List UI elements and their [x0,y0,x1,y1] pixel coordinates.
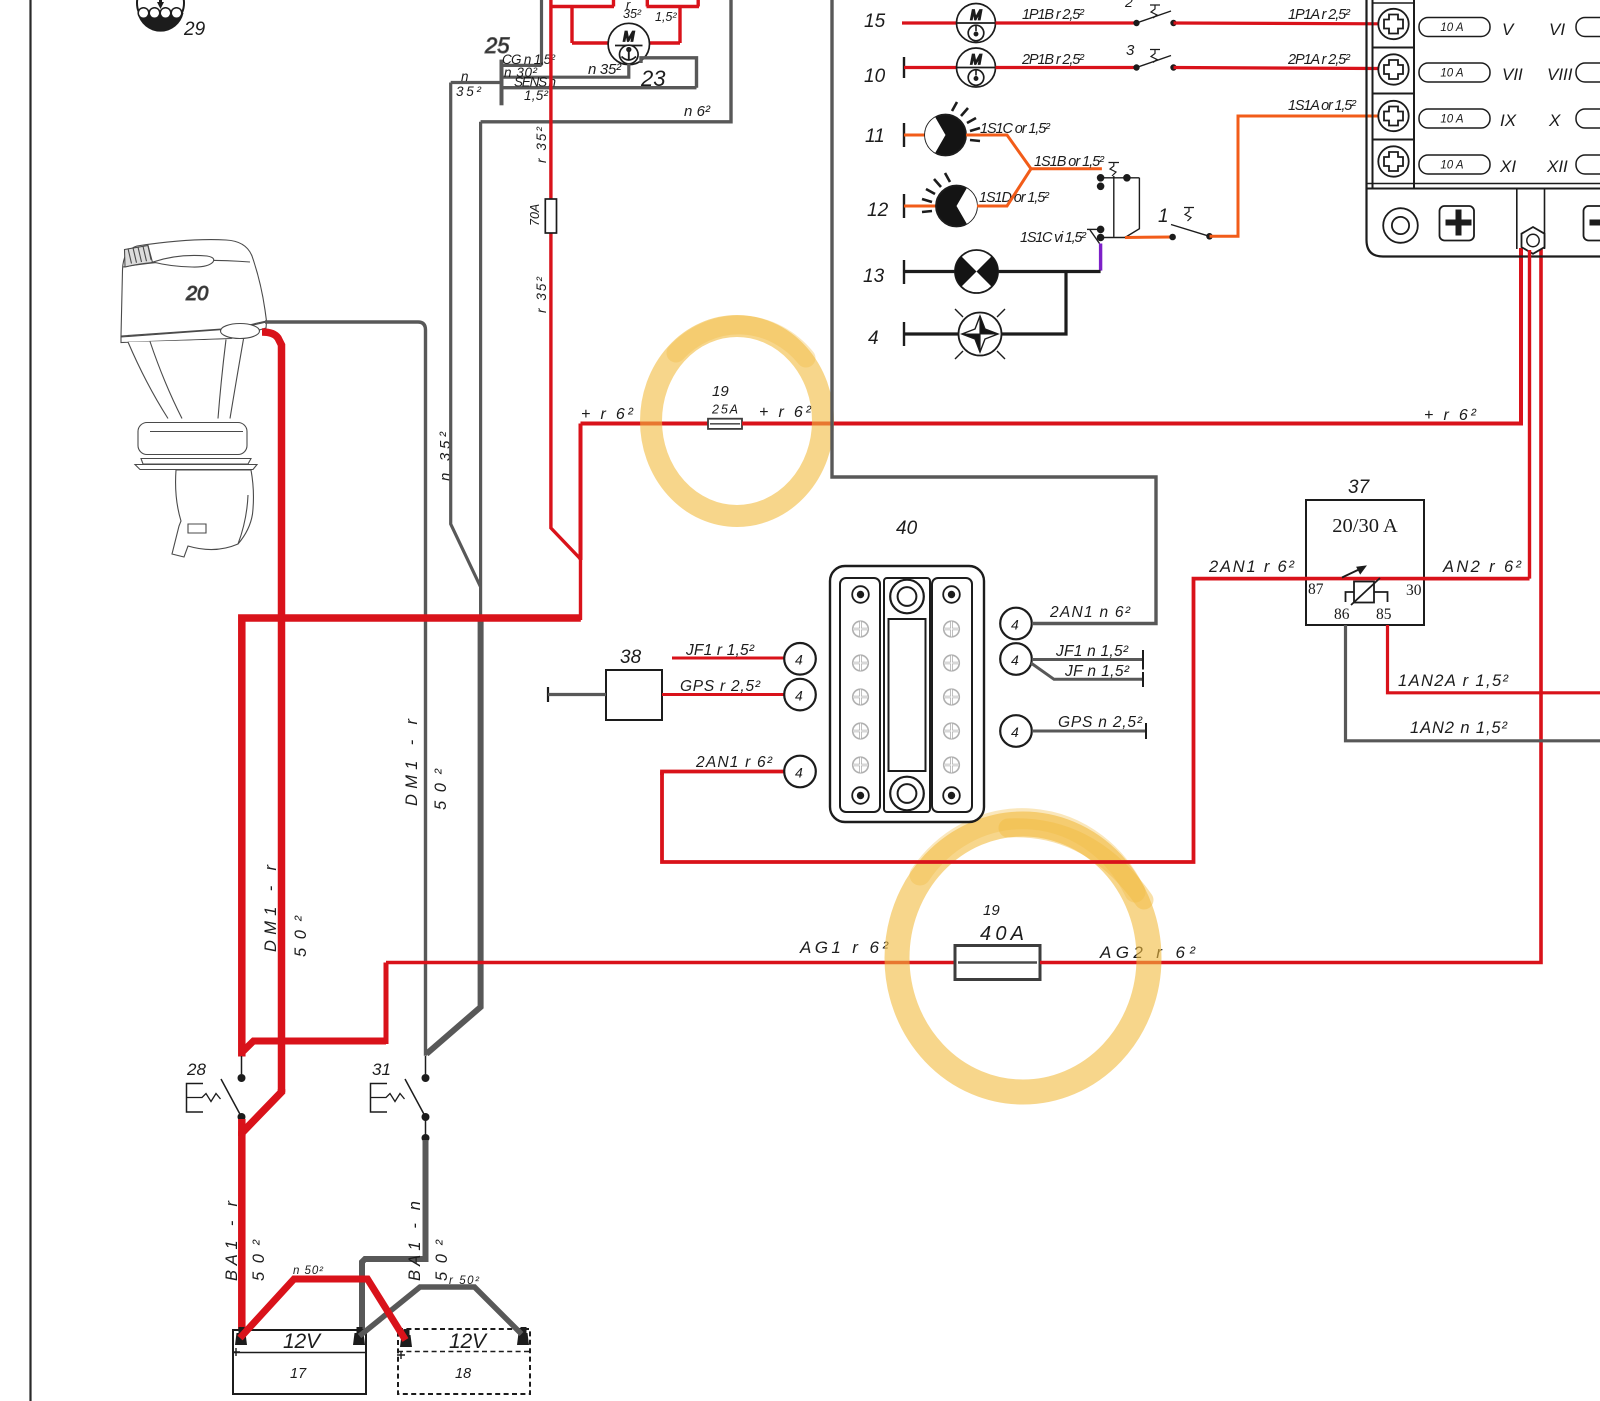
svg-text:+ r 6²: + r 6² [581,406,634,423]
svg-text:2P1A r 2,5²: 2P1A r 2,5² [1287,52,1351,68]
svg-text:20: 20 [185,283,208,305]
fuse 19 25A [708,383,742,429]
wire gray vertical to battery switch (DM1-n) [479,122,482,618]
svg-text:1S1B or 1,5²: 1S1B or 1,5² [1034,154,1105,170]
wire into device 38 [548,693,606,696]
svg-text:12V: 12V [283,1330,322,1353]
svg-text:35²: 35² [623,7,642,21]
svg-text:40: 40 [896,518,918,539]
svg-text:X: X [1548,111,1561,130]
svg-text:2AN1 r 6²: 2AN1 r 6² [1208,558,1295,576]
svg-text:10 A: 10 A [1440,22,1464,34]
svg-text:20/30 A: 20/30 A [1332,515,1398,537]
svg-text:AN2 r 6²: AN2 r 6² [1442,558,1522,576]
svg-text:JF n 1,5²: JF n 1,5² [1064,663,1130,680]
svg-text:IX: IX [1500,111,1517,130]
wire from lamp 13 [998,270,1101,273]
battery master switch 28 [186,1056,246,1121]
fuse rating boxes 10 A [1419,18,1490,175]
battery master switch 31 [371,1056,430,1142]
orange wire from lamp 11 to Y junction [966,135,1031,169]
svg-text:15: 15 [864,11,886,32]
wire n 35 to left [451,81,502,84]
svg-text:4: 4 [1011,652,1019,668]
wire r 35 red vertical with fuse 70A [549,7,552,200]
svg-text:12: 12 [867,200,889,221]
terminal circle 4 (JF1 n) [1000,643,1032,675]
wire + r 6 sq (right long segment to fuse panel) [742,248,1521,424]
terminal circle 4 (JF1 r) [784,643,816,675]
motor M 15 [957,4,996,43]
svg-text:25A: 25A [711,403,738,417]
svg-text:1,5²: 1,5² [524,88,549,103]
svg-text:10 A: 10 A [1440,68,1464,80]
windlass motor M circuit: top red loop wires (cut at top) [551,0,699,43]
wire 1S1B or 1,5 [1031,167,1102,170]
fuse screw terminal XI row [1378,146,1408,176]
wire 2AN1 n 6 [832,0,1156,624]
svg-text:70A: 70A [528,204,542,226]
svg-text:31: 31 [372,1060,391,1079]
terminal circle 4 (GPS n) [1000,715,1032,747]
svg-text:1AN2A r 1,5²: 1AN2A r 1,5² [1398,672,1509,690]
svg-text:M: M [623,29,635,44]
svg-text:18: 18 [455,1366,471,1382]
svg-text:r 35²: r 35² [534,277,549,314]
wire AN2 r 6 from relay 30 [1424,577,1530,581]
svg-text:VII: VII [1502,65,1523,84]
wire JF1 n 1,5 [1032,658,1143,661]
svg-text:XI: XI [1499,157,1516,176]
fuse screw terminal V row [1378,9,1408,39]
svg-text:50²: 50² [250,1240,268,1282]
wire stub up from CG [540,0,543,65]
relay 37 [1306,477,1424,625]
switch 1 [1125,206,1213,240]
svg-text:r 50²: r 50² [449,1275,480,1287]
orange wire from lamp 12 to Y junction [977,169,1031,206]
fuse screw terminal IX row [1378,101,1408,131]
svg-text:n: n [461,69,469,84]
wire DM1-r thick red from motor 20 [262,332,282,1092]
terminal circle 4 (2AN1 r) [784,756,816,788]
wire 1P1A r 2,5 to fuse V [1174,21,1380,25]
wire JF1 r 1,5 [672,657,785,660]
yellow highlighter ring around fuse 19 [651,325,823,516]
svg-text:86: 86 [1334,606,1350,623]
battery 17 [233,1330,366,1394]
right edge fuse boxes (cut) [1576,18,1600,175]
svg-text:n 6²: n 6² [684,103,711,120]
svg-text:1: 1 [1158,206,1169,227]
svg-text:GPS n 2,5²: GPS n 2,5² [1058,714,1143,731]
circuit numerals V - XII [1499,20,1573,176]
svg-text:VIII: VIII [1547,65,1573,84]
wire AG2 r 6 sq [1040,248,1541,963]
svg-text:10 A: 10 A [1440,160,1464,172]
svg-text:10: 10 [864,66,886,87]
yellow highlighter ring around fuse 40A [897,819,1149,1092]
GPS/plotter device 38 [548,647,662,720]
svg-text:3: 3 [1126,42,1135,59]
wire 1AN2A r 1,5 from relay 85 [1388,625,1600,693]
gray crossover jumper r 50 between battery posts [360,1287,522,1336]
wire BA1-r thick red to battery 17 [238,1119,246,1333]
svg-text:n 50²: n 50² [293,1265,324,1277]
red crossover jumper n 50 between battery posts [240,1279,406,1340]
battery 18 terminal posts [400,1329,412,1347]
svg-text:4: 4 [795,652,803,668]
wire 2AN1 r 6 to terminal [662,772,785,776]
terminal circle 4 (GPS r) [784,679,816,711]
svg-text:DM1 - r: DM1 - r [403,718,421,807]
svg-text:37: 37 [1348,477,1371,498]
svg-text:10 A: 10 A [1440,114,1464,126]
fuse panel body [1367,0,1600,257]
svg-text:r 35²: r 35² [534,127,549,164]
motor M 10 [957,48,996,87]
wire GPS n 2,5 [1032,730,1146,733]
svg-text:12V: 12V [449,1330,488,1353]
svg-text:n 35²: n 35² [588,61,622,78]
svg-text:4: 4 [795,765,803,781]
svg-text:2AN1 r 6²: 2AN1 r 6² [695,754,773,771]
drawing frame left border [29,0,31,1401]
svg-text:1,5²: 1,5² [655,10,677,24]
bus bar block 40 [830,518,984,822]
panel minus terminal (cut) [1584,206,1600,241]
panel plus terminal [1440,206,1475,241]
connector block 25 [451,0,697,105]
wire from compass 4 joining lamp 13 wire [1002,272,1066,335]
svg-text:50²: 50² [292,916,310,958]
multi-position switch block [1087,163,1139,244]
block 40 gray screws [853,621,960,773]
outboard motor 20 drawing [121,240,267,557]
svg-text:23: 23 [640,66,666,91]
wire SENS n 1,5 [502,86,697,89]
battery 18 (dashed) [398,1329,530,1394]
fuse 70A [545,199,556,233]
bilge sensor icon 29 [137,0,206,40]
svg-text:+ r 6²: + r 6² [759,404,812,421]
svg-text:85: 85 [1376,606,1392,623]
svg-text:2P1B r 2,5²: 2P1B r 2,5² [1021,52,1085,68]
wire GPS r 2,5 [662,693,785,696]
svg-text:1AN2 n 1,5²: 1AN2 n 1,5² [1410,719,1508,737]
red feed risers under stud [1528,250,1531,579]
svg-text:VI: VI [1549,20,1565,39]
wire to motor 10 [904,66,956,69]
svg-text:50²: 50² [432,769,450,811]
svg-text:1S1A or 1,5²: 1S1A or 1,5² [1288,98,1357,114]
svg-text:1S1C vi 1,5²: 1S1C vi 1,5² [1020,230,1087,246]
wire AG1 r 6 sq [386,961,955,965]
battery 17 terminal posts [235,1327,247,1345]
svg-text:4: 4 [1011,617,1019,633]
svg-text:35²: 35² [456,84,482,99]
svg-text:1P1B r 2,5²: 1P1B r 2,5² [1022,7,1085,23]
svg-text:M: M [970,52,982,67]
svg-text:17: 17 [290,1366,307,1382]
wire JF n 1,5 [1031,663,1143,679]
panel stud bracket [1516,189,1518,250]
svg-text:29: 29 [183,19,206,40]
wire 2P1B r 2,5 [996,66,1137,69]
svg-text:19: 19 [983,902,1000,919]
wire 1P1B r 2,5 [996,21,1137,24]
wire to motor 15 [902,21,956,24]
svg-text:JF1 n 1,5²: JF1 n 1,5² [1055,643,1129,660]
svg-text:28: 28 [186,1060,206,1079]
fuse 19 40A [955,902,1040,980]
wire 2P1A r 2,5 to fuse VII [1174,68,1380,69]
svg-text:M: M [970,8,982,23]
svg-text:AG1 r 6²: AG1 r 6² [799,938,889,957]
panel ground stud circle [1383,208,1418,243]
wire 1S1A or 1,5 to fuse IX [1210,116,1380,236]
svg-text:BA1 - n: BA1 - n [406,1201,424,1281]
wire n 30 to windlass motor [502,64,629,78]
wire red riser x=580 from +r6 down to main bus [579,424,583,561]
svg-text:30: 30 [1406,582,1422,599]
svg-text:13: 13 [863,266,885,287]
svg-text:87: 87 [1308,581,1324,598]
wire 1AN2 n 1,5 from relay 86 [1346,625,1600,741]
red jog from motor cable to battery switch column [242,1089,282,1136]
svg-text:DM1 - r: DM1 - r [262,864,280,953]
block 40 corner screws [852,586,960,804]
wire n 6 sq [481,0,731,122]
svg-text:V: V [1502,20,1515,39]
wire BA1-n thick gray to battery 17 minus [362,1140,426,1333]
switch 3 [1126,42,1177,71]
svg-text:4: 4 [1011,724,1019,740]
red horizontal to AG riser [242,1041,386,1053]
svg-text:+ r 6²: + r 6² [1424,407,1477,424]
svg-text:4: 4 [795,688,803,704]
svg-text:JF1 r 1,5²: JF1 r 1,5² [685,642,755,659]
svg-text:2AN1 n 6²: 2AN1 n 6² [1049,604,1131,621]
wire 2AN1 r 6 into relay 87 [662,579,1306,862]
svg-text:1P1A r 2,5²: 1P1A r 2,5² [1288,7,1351,23]
hex nut with battery feed [1522,227,1545,254]
wire CG n 1,5 [502,64,542,67]
AG riser red [384,963,389,1045]
svg-text:2: 2 [1124,0,1133,10]
wire + r 6 sq (left segment) [581,422,709,426]
main thick red bus y=618 [242,618,581,1057]
svg-text:11: 11 [865,126,885,147]
violet wire 1S1C vi [1099,244,1102,271]
svg-text:38: 38 [620,647,642,668]
wire DM1-n gray from motor 20 [265,322,426,1056]
terminal circle 4 (2AN1 n) [1000,608,1032,640]
wire n 35 vertical (from 25 down) with jog [451,83,481,588]
svg-text:40A: 40A [980,923,1024,945]
svg-text:GPS r 2,5²: GPS r 2,5² [680,678,761,695]
svg-text:19: 19 [712,383,729,400]
fuse screw terminal VII row [1378,54,1408,84]
switch 2 [1124,0,1177,26]
windlass motor M with anchor (item between 25 and 23) [608,23,649,64]
svg-text:XII: XII [1546,157,1568,176]
svg-text:4: 4 [868,328,879,349]
device 23 box [641,58,697,88]
